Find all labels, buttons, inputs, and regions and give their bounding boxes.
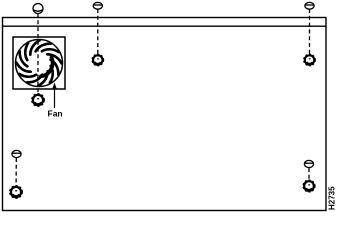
fan impeller circle xyxy=(16,40,63,87)
screw S4 dashed insertion line xyxy=(15,158,17,186)
screw hole H3 xyxy=(304,54,316,66)
screw S1 dashed insertion line xyxy=(37,14,39,95)
screw S2 head xyxy=(93,2,102,9)
screw S5 head xyxy=(304,160,313,167)
fan housing square xyxy=(13,37,65,89)
cover top flange line xyxy=(3,25,327,27)
screw hole H2 xyxy=(92,54,104,66)
screw S4 head xyxy=(12,150,21,157)
screw S3 dashed insertion line xyxy=(309,9,311,55)
screw hole H4 xyxy=(10,186,23,199)
svg-text:Fan: Fan xyxy=(48,109,63,119)
chassis cover outline xyxy=(3,18,327,211)
screw S5 dashed insertion line xyxy=(308,168,310,181)
fan blades xyxy=(15,39,63,87)
screw hole H1 (below fan) xyxy=(32,94,45,107)
fan callout arrow xyxy=(52,83,57,109)
screw S2 dashed insertion line xyxy=(97,9,99,55)
screw S3 head xyxy=(305,2,314,9)
svg-text:H2735: H2735 xyxy=(328,186,337,210)
screw S1 head xyxy=(33,4,43,14)
screw hole H5 xyxy=(303,180,315,192)
